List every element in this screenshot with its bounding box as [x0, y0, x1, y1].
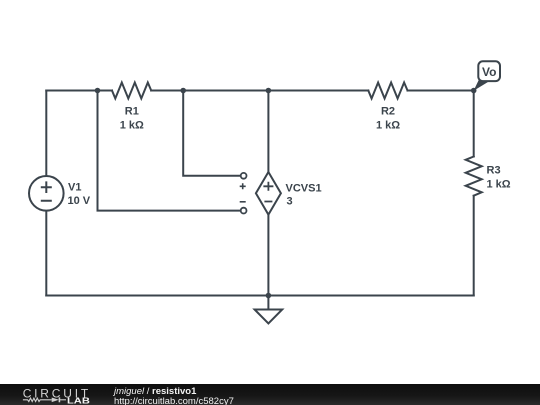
- svg-text:3: 3: [287, 196, 293, 208]
- svg-text:R2: R2: [381, 106, 395, 118]
- svg-text:LAB: LAB: [67, 397, 90, 405]
- svg-text:R1: R1: [125, 106, 139, 118]
- svg-text:1 kΩ: 1 kΩ: [120, 119, 144, 131]
- svg-text:10 V: 10 V: [68, 195, 91, 207]
- logo resistor zigzag and diode: [23, 397, 66, 402]
- resistor R1: [112, 83, 151, 99]
- wire left vertical lower: [45, 211, 47, 296]
- svg-text:VCVS1: VCVS1: [286, 183, 322, 195]
- node junction dot A (R1 left / minus sense tap): [95, 88, 101, 94]
- svg-text:R3: R3: [487, 165, 501, 177]
- dependent source VCVS1 (diamond): [256, 172, 281, 215]
- VCVS1 sense minus sign: [240, 201, 246, 203]
- resistor R3: [466, 157, 482, 196]
- wire top-middle segment: [151, 90, 368, 92]
- wire right vertical lower: [473, 196, 475, 296]
- node junction dot Vo (R2/R3 junction): [471, 88, 477, 94]
- ground: [255, 310, 283, 324]
- wire right vertical upper: [473, 91, 475, 157]
- VCVS1 sense terminal minus (open circle): [241, 208, 247, 214]
- svg-text:V1: V1: [68, 182, 81, 194]
- wire VCVS output bottom: [267, 215, 269, 296]
- wire top-right segment: [408, 90, 474, 92]
- node junction dot C (VCVS output top): [266, 88, 272, 94]
- wire left vertical upper: [45, 91, 47, 177]
- wire bottom: [46, 295, 473, 297]
- svg-text:1 kΩ: 1 kΩ: [487, 179, 511, 191]
- node junction dot B (R1 right / plus sense tap): [180, 88, 186, 94]
- footer credit text: [114, 387, 234, 405]
- node junction dot ground: [266, 293, 272, 299]
- voltage source V1: [29, 176, 64, 211]
- node flag Vo: [474, 61, 500, 91]
- CircuitLab logo: [0, 384, 110, 405]
- svg-text:Vo: Vo: [482, 65, 496, 79]
- wire ground stub: [267, 296, 269, 310]
- VCVS1 sense plus sign: [240, 183, 246, 189]
- footer bar: [0, 384, 540, 405]
- resistor R2: [368, 83, 407, 99]
- wire VCVS output top: [267, 91, 269, 173]
- wire VCVS plus sense: node to terminal: [183, 91, 241, 176]
- VCVS1 sense terminal plus (open circle): [241, 173, 247, 179]
- wire VCVS minus sense: node to terminal: [98, 91, 241, 211]
- wire top-left segment: [46, 90, 112, 92]
- svg-text:1 kΩ: 1 kΩ: [376, 119, 400, 131]
